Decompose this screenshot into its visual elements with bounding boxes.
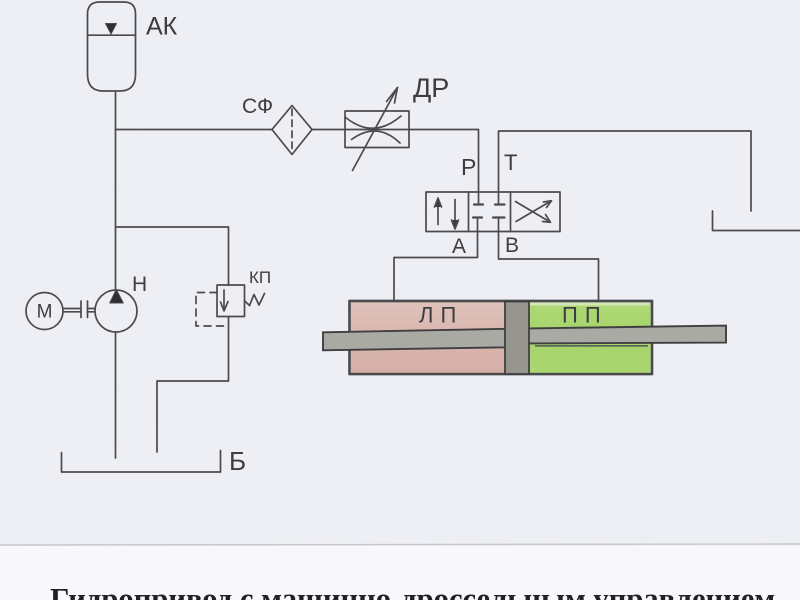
- throttle DR top curve: [345, 116, 401, 128]
- cylinder outer box: [350, 301, 653, 374]
- valve right cell crossed arrow 2: [516, 202, 551, 223]
- pale strip at top of green chamber: [530, 303, 650, 306]
- svg-text:В: В: [505, 234, 519, 257]
- cylinder left chamber pink fill: [351, 303, 505, 374]
- svg-text:Б: Б: [229, 446, 246, 476]
- piston: [505, 302, 529, 375]
- valve divider left: [468, 192, 470, 232]
- motor M circle: [26, 293, 63, 330]
- svg-text:М: М: [37, 302, 53, 323]
- coupling shaft to pump: [88, 309, 96, 312]
- wire: relief valve to tank: [157, 317, 229, 453]
- wire: filter to P port corner: [312, 130, 479, 204]
- cylinder outline redraw: [350, 301, 653, 374]
- coupling shaft lines: [64, 309, 82, 312]
- piston rod right segment: [528, 326, 726, 344]
- valve middle cell T port cap: [495, 203, 505, 205]
- svg-text:АК: АК: [146, 13, 178, 41]
- cylinder right chamber green fill: [529, 303, 651, 374]
- tank right (drain): [713, 211, 800, 231]
- valve divider right: [510, 192, 512, 232]
- svg-text:ДР: ДР: [413, 73, 449, 103]
- wire: accumulator down to pump: [115, 93, 117, 290]
- directional valve P outer box: [426, 192, 560, 232]
- tank B: [62, 451, 221, 473]
- piston rod left segment: [323, 329, 506, 351]
- wire: branch to relief valve KP: [116, 227, 229, 285]
- accumulator AK gas triangle: [106, 24, 117, 35]
- wire: valve A port to cylinder left: [477, 218, 479, 232]
- valve middle cell B port cap: [493, 216, 505, 218]
- wire: pump to tank B: [115, 332, 117, 458]
- coupling tick 1: [80, 301, 82, 318]
- throttle DR adjustment arrow: [353, 88, 398, 171]
- relief valve KP box: [217, 285, 245, 317]
- valve left cell up arrow: [437, 199, 439, 225]
- filter SF diamond: [272, 106, 312, 155]
- filter SF dashed element: [291, 109, 293, 151]
- accumulator AK vessel: [88, 2, 136, 91]
- svg-text:Н: Н: [132, 273, 147, 296]
- throttle DR box: [345, 111, 409, 148]
- svg-text:Т: Т: [504, 150, 517, 175]
- relief valve KP spring: [245, 294, 265, 306]
- valve middle cell A port cap: [473, 216, 482, 218]
- valve right cell crossed arrow 1: [516, 201, 551, 222]
- page edge shadow line: [0, 544, 800, 545]
- pump N circle: [95, 290, 137, 332]
- svg-text:Р: Р: [461, 154, 476, 180]
- accumulator AK divider line: [88, 34, 136, 36]
- svg-text:СФ: СФ: [242, 95, 273, 118]
- valve middle cell P port cap: [474, 203, 483, 205]
- pump N triangle: [110, 290, 124, 304]
- valve left cell down arrow: [454, 200, 456, 229]
- throttle DR bottom curve: [352, 131, 401, 143]
- relief valve KP internal arrow: [223, 290, 225, 310]
- svg-text:А: А: [452, 235, 466, 258]
- lower white band: [0, 546, 800, 600]
- svg-text:ПП: ПП: [562, 303, 608, 328]
- svg-text:ЛП: ЛП: [419, 303, 463, 328]
- svg-text:Гидропривод с машинно-дроссель: Гидропривод с машинно-дроссельным управл…: [50, 582, 775, 600]
- wire: T port up and to right tank: [499, 131, 752, 211]
- coupling tick 2: [87, 301, 89, 318]
- relief valve KP pilot dashed line: [196, 293, 225, 327]
- stray bore line in right chamber: [535, 345, 648, 347]
- wire: valve B port to cylinder right: [498, 218, 500, 232]
- wire: main pressure line to filter: [116, 129, 273, 131]
- svg-text:КП: КП: [249, 268, 271, 287]
